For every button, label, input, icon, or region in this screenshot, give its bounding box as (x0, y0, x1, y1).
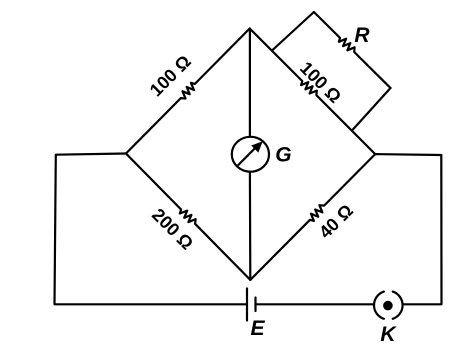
svg-text:R: R (354, 24, 370, 47)
svg-text:E: E (251, 317, 266, 340)
svg-text:K: K (380, 323, 397, 346)
svg-text:G: G (275, 143, 291, 166)
